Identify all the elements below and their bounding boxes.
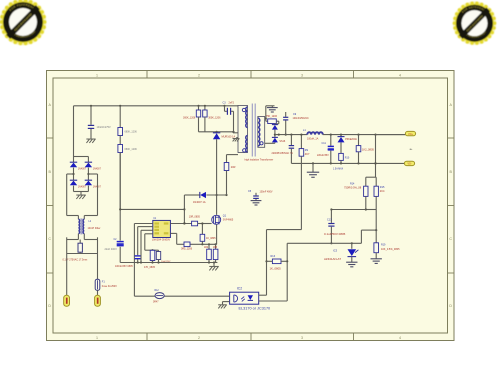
transformer T1 secondary winding box bbox=[258, 117, 265, 148]
wire: ref line left bbox=[330, 208, 366, 210]
terminal VO- bbox=[404, 161, 414, 165]
wire: primary top rail bbox=[74, 105, 239, 133]
svg-text:IC2: IC2 bbox=[237, 287, 242, 291]
svg-text:P6KE200A: P6KE200A bbox=[345, 138, 357, 141]
svg-text:VO-: VO- bbox=[407, 164, 411, 166]
op-amp U1 LNK304 controller bbox=[152, 218, 170, 242]
wire: U1 pin FB bbox=[134, 224, 152, 297]
svg-text:AZ431AN-AT: AZ431AN-AT bbox=[324, 257, 341, 261]
capacitor C3 clamp bbox=[223, 101, 235, 131]
wire: AC left down bbox=[67, 174, 79, 219]
stamp logo left bbox=[0, 0, 46, 45]
resistor R1 (bleed upper) bbox=[118, 106, 138, 145]
wire: bridge DC minus bbox=[80, 192, 82, 195]
capacitor C5a below U1 bbox=[156, 250, 171, 263]
diode D2 bbox=[272, 125, 278, 130]
stamp logo right bbox=[453, 2, 497, 45]
svg-text:2200PF/250VAC Y1: 2200PF/250VAC Y1 bbox=[272, 152, 294, 155]
capacitor C1 bbox=[88, 106, 111, 139]
resistor R13 bbox=[267, 255, 288, 271]
wire: opto ground stub bbox=[223, 302, 230, 305]
capacitor C6 X2 0.1uF/275VAC bbox=[63, 240, 98, 262]
svg-text:47K_0805: 47K_0805 bbox=[144, 266, 156, 269]
svg-text:1R2: 1R2 bbox=[204, 247, 209, 249]
ground (secondary shield) bbox=[267, 108, 278, 112]
svg-text:EL3170 or JC3170: EL3170 or JC3170 bbox=[239, 307, 271, 311]
resistor R18 bbox=[356, 135, 374, 164]
svg-text:100nF/250VAC: 100nF/250VAC bbox=[293, 117, 309, 120]
svg-text:4: 4 bbox=[399, 74, 401, 78]
svg-text:R19: R19 bbox=[381, 244, 386, 247]
capacitor C11 220uF/35V bbox=[317, 135, 334, 164]
ground (output) bbox=[307, 163, 319, 177]
label output current bbox=[333, 167, 344, 170]
wire: AC right down bbox=[84, 174, 97, 219]
svg-text:1K_0805: 1K_0805 bbox=[270, 267, 282, 271]
diode D12 bridge bbox=[85, 162, 102, 170]
wire: output positive rail bbox=[323, 134, 406, 136]
ground (opto) bbox=[218, 305, 227, 309]
svg-text:100uH_1A: 100uH_1A bbox=[307, 138, 319, 141]
wire: U1 pin BP bbox=[138, 227, 153, 256]
svg-text:Q1: Q1 bbox=[223, 214, 227, 217]
diode D11 bridge bbox=[70, 162, 87, 170]
wire: rectified output bbox=[275, 134, 307, 136]
svg-text:SVF4N65: SVF4N65 bbox=[223, 219, 234, 222]
svg-text:4K7: 4K7 bbox=[305, 152, 310, 156]
transformer T1 primary/aux winding box bbox=[238, 106, 248, 153]
transformer T1 core bbox=[252, 104, 255, 157]
capacitor C13 bbox=[324, 210, 346, 245]
resistor R7 bbox=[224, 155, 238, 195]
resistor R10 bbox=[339, 153, 350, 163]
wire: divider top join bbox=[366, 176, 376, 178]
wire: secondary bottom bbox=[265, 141, 275, 144]
ground (R19) bbox=[371, 259, 382, 264]
svg-text:C: C bbox=[449, 237, 452, 241]
node aux bottom pin bbox=[243, 149, 246, 152]
svg-text:4: 4 bbox=[399, 336, 401, 340]
diode D3 bbox=[272, 137, 286, 143]
resistor R8 75K bbox=[266, 115, 279, 123]
wire: opto pins right bbox=[259, 295, 288, 301]
terminal ACL bbox=[64, 295, 70, 306]
svg-text:R10: R10 bbox=[345, 157, 350, 160]
svg-text:Fuse 3A 250V: Fuse 3A 250V bbox=[102, 285, 117, 288]
resistor R4 sense bbox=[204, 244, 211, 262]
diode D13 bridge bbox=[70, 180, 87, 188]
wire: divider bottom join bbox=[365, 208, 377, 210]
svg-text:MUR160 1A: MUR160 1A bbox=[222, 135, 236, 138]
svg-text:100nF/25V 0805: 100nF/25V 0805 bbox=[115, 265, 133, 268]
svg-text:1N4007 1A: 1N4007 1A bbox=[193, 201, 206, 204]
wire: opto anode riser bbox=[286, 243, 288, 301]
wire: choke to X-cap bbox=[67, 234, 98, 240]
svg-text:3: 3 bbox=[301, 74, 303, 78]
svg-text:IC3: IC3 bbox=[333, 248, 338, 252]
wire: line to terminal bbox=[66, 254, 68, 296]
svg-text:1N4007: 1N4007 bbox=[78, 187, 87, 189]
wire: clamp node bbox=[199, 131, 235, 133]
capacitor C10 Y1 bbox=[272, 135, 295, 164]
svg-text:1N4007: 1N4007 bbox=[78, 169, 87, 171]
resistor R14 divider left bbox=[344, 177, 368, 209]
svg-text:C13: C13 bbox=[327, 218, 332, 221]
wire: bridge top feed bbox=[73, 106, 75, 157]
svg-text:1K_0805: 1K_0805 bbox=[206, 237, 216, 240]
inductor L1 bbox=[303, 129, 323, 141]
ground (bridge) bbox=[76, 195, 85, 199]
svg-text:2nF2: 2nF2 bbox=[229, 101, 235, 104]
label transformer bbox=[245, 158, 274, 161]
svg-text:10R_0805: 10R_0805 bbox=[189, 216, 201, 219]
wire: primary return rail bbox=[120, 261, 217, 263]
resistor R6 gate pulldown bbox=[200, 222, 216, 244]
op-amp IC2 optocoupler bbox=[230, 287, 271, 311]
resistor R2A snubber bbox=[203, 106, 221, 132]
svg-text:R12: R12 bbox=[155, 290, 160, 292]
wire: bleed tap to controller bbox=[119, 208, 184, 210]
terminal ACN bbox=[95, 295, 101, 306]
svg-text:300K_1206: 300K_1206 bbox=[183, 117, 196, 120]
capacitor C9 100nF/250VAC bbox=[283, 112, 309, 136]
svg-text:high isolation Transformer: high isolation Transformer bbox=[245, 158, 274, 161]
svg-text:300K_1206: 300K_1206 bbox=[208, 117, 221, 120]
wire: U1 pin GND2 bbox=[145, 234, 159, 251]
terminal VO+ bbox=[376, 131, 416, 135]
svg-text:0.1uF/50V 0805: 0.1uF/50V 0805 bbox=[324, 232, 346, 236]
resistor R16 gate bbox=[189, 216, 212, 226]
svg-text:1K2_0805: 1K2_0805 bbox=[362, 147, 374, 151]
svg-text:3: 3 bbox=[301, 336, 303, 340]
transistor Q1 bbox=[212, 214, 234, 224]
svg-text:0R47: 0R47 bbox=[153, 302, 159, 304]
svg-text:2K4: 2K4 bbox=[380, 189, 385, 193]
wire: feedback long run bbox=[134, 295, 229, 297]
wire: neutral to fuse bbox=[97, 254, 99, 280]
svg-text:D: D bbox=[48, 304, 51, 308]
sheet frame with grid references bbox=[47, 71, 455, 341]
shunt regulator U2 AZ431 bbox=[324, 243, 358, 262]
resistor R17 0R5 sense feed bbox=[181, 242, 193, 250]
svg-text:10mH Filter: 10mH Filter bbox=[88, 227, 101, 230]
capacitor C4 BP 100nF bbox=[115, 256, 141, 268]
wire: D2 to D3 bbox=[274, 130, 276, 138]
svg-text:680K_1206: 680K_1206 bbox=[125, 148, 138, 151]
resistor R1A snubber bbox=[183, 106, 201, 132]
wire: drain line bbox=[216, 139, 218, 215]
resistor R3 below U1 bbox=[144, 250, 156, 269]
ground (below C1) bbox=[86, 139, 95, 143]
wire: opto cathode riser bbox=[265, 230, 301, 296]
capacitor C2 electrolytic 22uF/400V bbox=[105, 239, 124, 251]
wire: U1 source pin bbox=[170, 233, 176, 244]
svg-text:100nF 400V: 100nF 400V bbox=[260, 191, 273, 194]
svg-text:680K_1206: 680K_1206 bbox=[125, 131, 138, 134]
diode D6 zener P6KE bbox=[338, 135, 358, 154]
svg-text:1.5A MAX: 1.5A MAX bbox=[333, 167, 344, 170]
diode D1 clamp MUR160 bbox=[213, 132, 236, 139]
node primary top pin bbox=[242, 108, 245, 111]
fuse F1 bbox=[95, 279, 117, 290]
transformer T1 primary winding bbox=[246, 107, 248, 128]
wire: Q1 drain/source bbox=[216, 215, 218, 245]
svg-text:LNK304 GN/DN: LNK304 GN/DN bbox=[152, 239, 170, 242]
svg-text:VO+: VO+ bbox=[408, 134, 413, 136]
wire: U1 drain pin bbox=[170, 222, 191, 224]
wire: output negative rail bbox=[291, 162, 404, 164]
svg-text:1N4007: 1N4007 bbox=[93, 169, 102, 171]
wire: primary bottom exit bbox=[233, 132, 238, 134]
capacitor C5 100nF/400V bbox=[248, 190, 273, 201]
wire: bridge legs bbox=[72, 157, 89, 192]
resistor R19 divider lower bbox=[374, 210, 400, 259]
svg-text:R13: R13 bbox=[271, 255, 276, 258]
diode D5 1N4007 bbox=[193, 192, 206, 204]
svg-text:D: D bbox=[449, 304, 452, 308]
svg-text:2: 2 bbox=[198, 74, 200, 78]
svg-text:2: 2 bbox=[198, 336, 200, 340]
svg-text:22uF 400V: 22uF 400V bbox=[105, 248, 118, 251]
svg-text:75K_1206: 75K_1206 bbox=[266, 115, 278, 118]
wire: source node line bbox=[177, 243, 217, 245]
resistor R2 (bleed lower) bbox=[118, 145, 138, 210]
svg-text:R14: R14 bbox=[350, 183, 355, 186]
ground (sense) bbox=[209, 266, 218, 270]
wire: rail to ground stub bbox=[213, 263, 215, 267]
svg-text:1: 1 bbox=[96, 74, 98, 78]
svg-text:750R/0.5%_08: 750R/0.5%_08 bbox=[344, 186, 362, 190]
wire: C2 to primary return rail bbox=[119, 247, 121, 263]
svg-text:R15: R15 bbox=[380, 186, 385, 189]
node output plus label bbox=[410, 148, 413, 151]
wire: secondary top bbox=[265, 106, 275, 121]
svg-text:104/AC275V: 104/AC275V bbox=[97, 126, 112, 129]
ground (C5) bbox=[251, 201, 262, 205]
wire: AC taps bbox=[67, 173, 98, 175]
wire: D5 freewheel line bbox=[184, 194, 227, 196]
resistor R12 jumper bbox=[153, 290, 164, 304]
diode D14 bridge bbox=[85, 180, 102, 188]
ground (aux winding) bbox=[233, 138, 240, 142]
svg-text:0R5_1206: 0R5_1206 bbox=[181, 247, 193, 250]
svg-text:C: C bbox=[48, 237, 51, 241]
resistor R5 sense bbox=[213, 244, 218, 262]
ground (U2) bbox=[346, 262, 357, 267]
resistor R15 divider right bbox=[374, 177, 385, 209]
transformer T1 aux winding bbox=[246, 136, 248, 153]
wire: feedback bus bbox=[287, 229, 377, 244]
wire: U1 pin GND1 bbox=[141, 230, 153, 262]
svg-text:10K_0.5%_0805: 10K_0.5%_0805 bbox=[381, 248, 400, 251]
node secondary pins bbox=[260, 142, 263, 145]
svg-text:1R5: 1R5 bbox=[213, 247, 218, 249]
svg-text:SS16: SS16 bbox=[279, 140, 286, 143]
transformer T1 secondary winding bbox=[258, 118, 260, 146]
svg-text:10uF/25V: 10uF/25V bbox=[161, 261, 171, 263]
svg-text:1: 1 bbox=[96, 336, 98, 340]
wire: R8 to D2 bbox=[275, 121, 279, 124]
wire: fuse to terminal bbox=[97, 290, 99, 295]
svg-text:20R: 20R bbox=[231, 166, 236, 169]
wire: feedback vertical bbox=[183, 195, 185, 224]
resistor R9 opto feed bbox=[299, 134, 310, 230]
wire: divider feed bbox=[374, 135, 376, 178]
svg-text:C11: C11 bbox=[322, 142, 327, 145]
wire: bleed chain to bulk cap bbox=[119, 153, 121, 241]
inductor L2 common-mode choke bbox=[78, 218, 100, 234]
svg-text:220uF/35V: 220uF/35V bbox=[317, 154, 329, 157]
